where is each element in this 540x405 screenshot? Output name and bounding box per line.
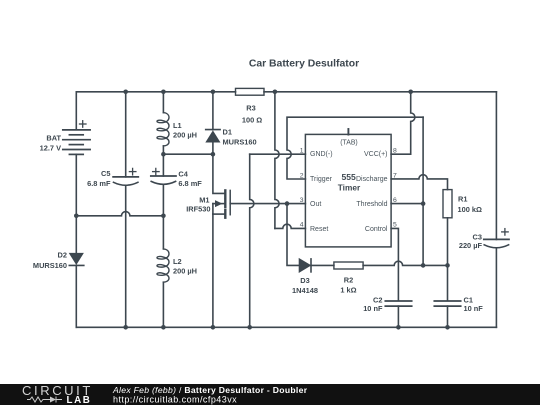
footer logo squiggle: [27, 397, 62, 403]
IC U1 555 timer box: [305, 134, 391, 247]
svg-text:4: 4: [300, 222, 304, 229]
svg-text:555: 555: [342, 172, 357, 182]
wire bottom rail: [76, 326, 496, 328]
svg-text:M1: M1: [199, 195, 209, 204]
svg-text:IRF530: IRF530: [186, 205, 210, 214]
junction bottom rail M1: [211, 325, 216, 330]
battery BAT wire top: [75, 92, 77, 129]
transistor M1: [213, 190, 230, 217]
C5 plus sign: [129, 168, 136, 175]
wire VCC pin8 right, up to top rail with hop over trigger wire: [391, 92, 415, 154]
junction bottom rail C5: [123, 325, 128, 330]
wire C5 bottom: [125, 185, 127, 327]
label C2: [363, 296, 383, 314]
wire L1 top: [162, 92, 164, 113]
label 555 Timer: [338, 172, 361, 193]
svg-text:Control: Control: [365, 226, 388, 233]
svg-text:R3: R3: [246, 104, 255, 113]
wire trigger: pin2 left, up, right to threshold corner: [287, 117, 423, 179]
label L1: [173, 121, 197, 139]
wire middle (battery to L2) with hop over C5: [76, 212, 163, 216]
diode D2: [69, 254, 84, 266]
svg-text:6.8 mF: 6.8 mF: [87, 179, 111, 188]
svg-text:6.8 mF: 6.8 mF: [178, 179, 202, 188]
svg-text:100 Ω: 100 Ω: [242, 116, 262, 125]
svg-text:200 µH: 200 µH: [173, 130, 197, 139]
label C4: [178, 169, 202, 188]
wire GND pin1 horizontal: [250, 153, 306, 155]
diode D3: [299, 259, 311, 272]
svg-text:LAB: LAB: [67, 395, 92, 405]
svg-text:Threshold: Threshold: [356, 201, 387, 208]
battery BAT: [63, 130, 90, 155]
junction top rail D1: [211, 90, 216, 95]
svg-text:C4: C4: [178, 169, 188, 178]
wire C4 top: [162, 154, 164, 176]
label R1: [458, 195, 482, 214]
junction D1 anode: [211, 152, 216, 157]
label M1: [186, 195, 210, 213]
svg-text:100 kΩ: 100 kΩ: [458, 205, 482, 214]
C3 plus sign: [502, 229, 509, 236]
diode D1: [206, 130, 220, 142]
wire GND pin1: corner at 249.7 down to bottom rail, hop right over gate wire: [250, 154, 254, 327]
wire top rail left: [76, 91, 235, 93]
label D1: [223, 128, 257, 147]
junction bottom rail L2: [161, 325, 166, 330]
resistor R1: [443, 190, 452, 218]
svg-text:1N4148: 1N4148: [292, 286, 318, 295]
capacitor C4: [151, 176, 176, 184]
label R3 value: [242, 104, 262, 125]
wire reset vertical from top rail, hops over GND and gate wires: [275, 92, 279, 229]
capacitor C5: [113, 177, 138, 185]
svg-text:Timer: Timer: [338, 183, 361, 193]
svg-text:BAT: BAT: [46, 134, 61, 143]
capacitor C1: [434, 301, 460, 306]
wire threshold pin6 to vertical: [391, 203, 423, 205]
svg-text:3: 3: [300, 197, 304, 204]
svg-text:1: 1: [300, 148, 304, 155]
svg-text:L1: L1: [173, 121, 182, 130]
wire R2 to R1 node with hop over control vertical: [363, 261, 447, 265]
C4 plus sign: [153, 168, 160, 175]
svg-text:2: 2: [300, 172, 304, 179]
label (TAB): [340, 140, 357, 147]
junction R1 bottom: [445, 263, 450, 268]
inductor L2: [157, 249, 169, 282]
svg-text:220 µF: 220 µF: [459, 241, 483, 250]
junction L1 bottom: [161, 152, 166, 157]
junction bottom rail C1: [445, 325, 450, 330]
svg-text:MURS160: MURS160: [223, 138, 257, 147]
label R2: [340, 276, 356, 295]
wire out node down to D3: [287, 204, 299, 266]
svg-text:GND(-): GND(-): [310, 151, 333, 158]
wire C1 bottom: [447, 306, 449, 327]
svg-text:D2: D2: [58, 251, 67, 260]
wire reset horizontal with hop over out vertical: [275, 224, 306, 228]
wire M1 source to bottom rail: [212, 214, 214, 327]
wire C4 bottom: [162, 184, 164, 215]
junction threshold node: [421, 201, 426, 206]
capacitor C2: [385, 301, 411, 306]
svg-text:VCC(+): VCC(+): [364, 151, 388, 158]
junction top rail VCC: [408, 90, 413, 95]
svg-text:MURS160: MURS160: [33, 261, 67, 270]
pin labels left: [310, 151, 333, 233]
wire L2 top: [162, 216, 164, 249]
wire D1 top: [212, 92, 214, 130]
svg-text:Car Battery Desulfator: Car Battery Desulfator: [249, 58, 359, 69]
pin numbers: [300, 148, 397, 229]
wire L1 bottom: [162, 146, 164, 154]
label D3: [292, 276, 318, 295]
wire C2 bottom: [397, 306, 399, 327]
svg-text:200 µH: 200 µH: [173, 267, 197, 276]
label C3: [459, 233, 483, 250]
svg-text:1 kΩ: 1 kΩ: [340, 286, 356, 295]
wire trigger-threshold vertical down to R2 node: [422, 117, 424, 265]
555 TAB pin stub: [347, 129, 349, 135]
svg-text:Discharge: Discharge: [356, 176, 388, 183]
wire C5 top: [125, 92, 127, 177]
wire D2 to bottom rail: [75, 265, 77, 327]
label L2: [173, 257, 197, 276]
svg-text:D3: D3: [300, 276, 309, 285]
junction middle wire L2: [161, 214, 166, 219]
label C5: [87, 169, 111, 188]
wire D3 to R2: [311, 264, 334, 266]
wire D1 node to M1 drain: [213, 154, 224, 193]
svg-text:Trigger: Trigger: [310, 176, 333, 183]
junction bottom rail GND wire: [247, 325, 252, 330]
wire R1 node down to C1: [447, 265, 449, 300]
svg-text:http://circuitlab.com/cfp43vx: http://circuitlab.com/cfp43vx: [113, 394, 237, 404]
wire top rail right: [264, 91, 496, 93]
wire L2 bottom: [162, 282, 164, 327]
svg-text:12.7 V: 12.7 V: [40, 144, 61, 153]
svg-text:10 nF: 10 nF: [363, 304, 383, 313]
junction middle wire battery: [74, 214, 79, 219]
svg-text:Out: Out: [310, 201, 321, 208]
svg-text:R2: R2: [344, 276, 353, 285]
junction out node: [285, 201, 290, 206]
svg-text:D1: D1: [223, 128, 232, 137]
inductor L1: [157, 113, 169, 146]
junction bottom rail C2: [396, 325, 401, 330]
label BAT: [40, 134, 62, 153]
capacitor C3: [484, 239, 509, 247]
svg-text:R1: R1: [458, 195, 467, 204]
wire R1 bottom to node: [447, 218, 449, 266]
footer bar: [0, 384, 540, 405]
wire C3 bottom to bottom rail: [495, 248, 497, 327]
junction top rail L1: [161, 90, 166, 95]
svg-text:Reset: Reset: [310, 226, 328, 233]
junction R2 threshold: [421, 263, 426, 268]
junction top rail C5: [123, 90, 128, 95]
svg-text:(TAB): (TAB): [340, 140, 357, 147]
wire M1 gate to 555 Out pin 3 (hops handled by verticals): [230, 203, 305, 205]
wire control pin5 down to C2 with hop handled on horizontal: [391, 228, 398, 300]
label C1: [464, 296, 484, 314]
wire right rail top to C3: [495, 92, 497, 240]
svg-text:L2: L2: [173, 257, 182, 266]
wire battery to D2: [75, 154, 77, 253]
pin labels right: [356, 151, 388, 233]
resistor R2: [334, 262, 363, 269]
wire L1 to D1 node: [163, 153, 213, 155]
svg-text:C5: C5: [101, 169, 110, 178]
resistor R3: [236, 88, 265, 95]
wire D1 bottom: [212, 142, 214, 154]
label D2: [33, 251, 67, 270]
battery plus sign: [80, 121, 87, 128]
junction top rail reset: [273, 90, 278, 95]
svg-text:10 nF: 10 nF: [464, 304, 484, 313]
wire discharge pin7 to R1 with hop over threshold vertical: [391, 175, 447, 190]
